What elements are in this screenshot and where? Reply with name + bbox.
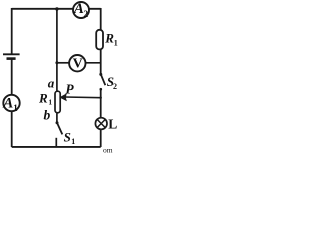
node: junction dot top wire / middle wire [55,7,58,10]
svg-text:1: 1 [71,137,75,146]
wire: voltmeter branch right [85,62,101,64]
svg-text:P: P [65,81,74,96]
svg-text:A: A [2,95,13,111]
wire: right vertical lower (below S2 to bottom corner) [100,89,102,148]
svg-text:om: om [103,146,113,155]
wire: top horizontal from left corner to right corner [12,8,101,10]
switch S2 upper terminal dot [99,73,102,76]
svg-text:a: a [48,76,55,91]
svg-text:R: R [38,90,48,105]
battery (long plate, positive) [3,53,20,55]
ammeter A1 (left) [3,95,19,111]
resistor R1 (right branch) body [96,30,103,50]
svg-text:L: L [108,117,117,132]
svg-text:1: 1 [13,103,18,113]
svg-text:S: S [64,129,71,144]
wire: middle vertical (top junction down to rheostat) [56,9,58,91]
wire: stub below S1 to bottom wire [55,138,57,147]
switch S1 terminal dot [56,121,59,124]
svg-text:1: 1 [48,97,52,106]
rheostat R1 body [55,91,60,113]
rheostat slider wire (tail to right branch) [65,96,101,99]
node: junction slider wire / right branch [100,97,102,99]
voltmeter V [69,55,85,71]
svg-text:2: 2 [113,82,117,91]
ammeter A2 (top) [73,2,89,18]
wire: middle vertical below rheostat to switch S1 [56,113,58,122]
wire: left vertical upper (corner to battery) [11,8,13,54]
lamp L [95,118,107,130]
rheostat slider arrowhead P [60,94,66,100]
svg-text:2: 2 [83,10,88,20]
svg-text:A: A [73,1,84,17]
svg-text:R: R [104,30,114,45]
switch S2 lower terminal dot [100,88,103,91]
wire: right vertical upper (corner to switch S2) [100,8,102,74]
wire: bottom horizontal [12,146,101,148]
wire: voltmeter branch left [57,62,70,64]
svg-text:V: V [73,56,83,71]
battery (short thick plate, negative) [7,57,16,60]
switch S2 blade [101,74,106,85]
svg-text:1: 1 [114,39,118,48]
switch S1 blade [57,123,62,135]
wire: left vertical lower (battery to bottom corner) [11,59,13,147]
node: junction dot middle wire / voltmeter branch [55,61,58,64]
svg-text:b: b [44,108,51,123]
